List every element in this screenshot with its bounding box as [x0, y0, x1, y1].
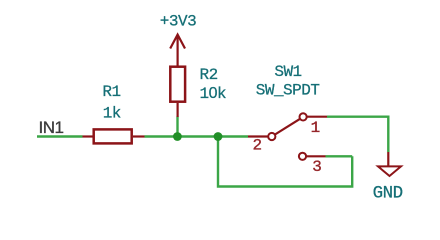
svg-text:R2: R2: [200, 66, 218, 84]
svg-text:IN1: IN1: [39, 118, 64, 137]
svg-text:10k: 10k: [200, 85, 227, 103]
svg-text:SW1: SW1: [274, 63, 301, 81]
svg-text:1: 1: [311, 119, 320, 137]
svg-text:1k: 1k: [103, 105, 121, 123]
svg-text:3: 3: [312, 158, 321, 176]
svg-text:R1: R1: [102, 83, 120, 101]
svg-text:2: 2: [252, 137, 261, 155]
svg-text:GND: GND: [373, 184, 403, 204]
svg-text:+3V3: +3V3: [160, 13, 196, 31]
svg-text:SW_SPDT: SW_SPDT: [256, 82, 320, 100]
